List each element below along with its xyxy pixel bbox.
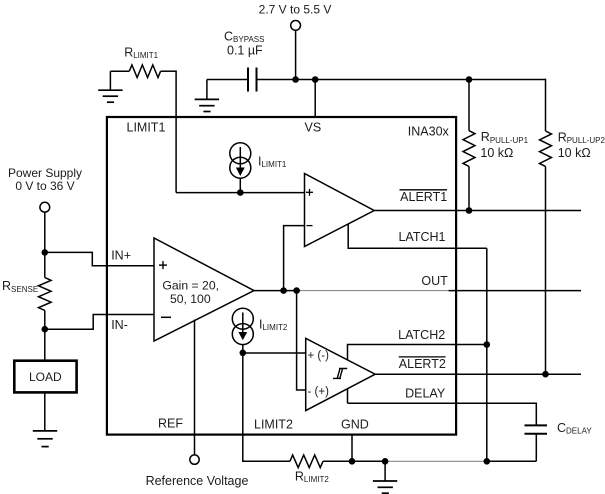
svg-text:VS: VS [305,120,322,134]
terminal 2.7V to 5.5V [259,3,332,31]
terminal Power Supply [8,166,82,212]
node LATCH2 junction [484,341,491,348]
pin label LATCH1 [398,230,445,244]
wire ground rail (GND junction to earth) [352,460,385,462]
wire OUT net (to right edge) [449,290,582,292]
wire ground rail to CDELAY [487,460,537,462]
node VS/rail [312,76,319,83]
wire to LOAD [44,329,46,361]
resistor RLIMIT1 [124,45,160,77]
svg-text:LATCH2: LATCH2 [398,328,445,342]
node RLIMIT2/GND [349,458,356,465]
svg-text:0.1 µF: 0.1 µF [227,44,263,58]
wire RLIMIT1 left lead [110,70,129,72]
current source ILIMIT1 [230,143,287,178]
svg-text:50, 100: 50, 100 [170,292,211,306]
wire VS pin drop [314,80,316,118]
wire ALERT1 net [374,210,581,212]
node supply-terminal/rail [292,76,299,83]
wire GND pin drop [351,435,353,462]
wire CDELAY bottom lead [535,434,537,462]
node IN+ tap [42,249,49,256]
wire REF pin (amp to terminal) [194,320,196,455]
current source ILIMIT2 [232,308,288,344]
load block [14,361,76,393]
svg-text:+ (-): + (-) [308,350,330,362]
hysteresis symbol inside U3 [333,369,347,379]
wire RLIMIT1 right lead [161,70,177,72]
svg-text:INA30x: INA30x [408,125,450,139]
wire LOAD to ground [44,392,46,431]
svg-text:- (+): - (+) [308,386,330,398]
wire CBYPASS left lead to ground [207,79,248,81]
wire LATCH1-LATCH2-GND vertical [486,248,488,461]
svg-text:LATCH1: LATCH1 [398,230,445,244]
wire ALERT2 net [375,373,581,375]
svg-text:2.7 V to 5.5 V: 2.7 V to 5.5 V [259,3,332,17]
svg-text:0 V to 36 V: 0 V to 36 V [15,179,74,193]
capacitor CBYPASS [224,29,264,91]
node ALERT1/RPULLUP1 [466,207,473,214]
wire supply rail [257,79,546,81]
node IN- tap [42,326,49,333]
pin label LIMIT2 [254,418,293,432]
pin label ALERT2 (with overline) [399,357,446,371]
wire LATCH1 net [348,224,487,249]
wire LIMIT1 pin drop [175,70,177,192]
comparator U3 (ALERT2, hysteresis) [306,338,376,410]
pin label ALERT1 (with overline) [400,190,448,204]
svg-text:10 kΩ: 10 kΩ [558,146,591,160]
svg-text:IN+: IN+ [111,249,131,263]
svg-text:LIMIT1: LIMIT1 [127,120,166,134]
ground (GND rail) [373,461,397,493]
wire IN+ net [45,252,154,265]
comparator U2 (ALERT1) [305,174,375,247]
wire RSENSE top lead [44,252,46,277]
wire ILIMIT1 to comparator U2 + input [176,192,304,194]
wire RPULLUP2 top lead [545,79,547,131]
wire ILIMIT2 source stub [242,345,244,353]
pin label IN+ [111,249,131,263]
wire ground rail (thin segment) [385,460,487,462]
ground (RLIMIT1) [98,71,122,102]
svg-text:LIMIT2: LIMIT2 [254,418,293,432]
node ILIMIT1/LIMIT1 wire [237,189,244,196]
pin label GND [341,418,369,432]
svg-text:DELAY: DELAY [405,386,446,400]
svg-text:Power Supply: Power Supply [8,166,82,180]
svg-text:ALERT2: ALERT2 [399,357,446,371]
wire supply vertical (2.7V terminal to rail) [295,30,297,79]
resistor RLIMIT2 [290,455,329,484]
node OUT/comparator U2 - input [280,287,287,294]
wire IN- net [45,315,154,330]
pin label IN- [111,318,128,332]
wire comparator U2 - input [284,226,305,291]
svg-text:10 kΩ: 10 kΩ [480,146,513,160]
svg-text:IN-: IN- [111,318,128,332]
wire RPULLUP1 top lead [468,80,470,131]
svg-text:REF: REF [158,417,183,431]
wire power supply terminal drop [44,212,46,252]
wire DELAY net [348,389,537,425]
ground (LOAD) [33,431,57,447]
op-amp A1 main amplifier (Gain = 20, 50, 100) [154,238,254,341]
svg-text:OUT: OUT [421,274,448,288]
wire OUT net (thin middle segment) [300,290,449,292]
wire RPULLUP1 bottom lead to ALERT1 [468,166,470,210]
wire RPULLUP2 bottom lead to ALERT2 [545,166,547,374]
wire OUT net (amp output) [254,290,300,292]
pin label OUT [421,274,448,288]
capacitor CDELAY [525,421,593,436]
pin label VS [305,120,322,134]
wire ILIMIT2 to comparator U3 + input [243,352,306,354]
resistor RSENSE [2,278,51,311]
op-amp/IC outline U1 INA30x [107,117,456,435]
wire ILIMIT1 source stub [239,178,241,192]
wire comparator U3 - input from OUT [297,291,306,390]
svg-text:Reference Voltage: Reference Voltage [146,474,249,488]
node earth ground junction [382,458,389,465]
pin label REF [158,417,183,431]
resistor RPULLUP2 [540,130,605,166]
svg-text:Gain = 20,: Gain = 20, [162,278,219,292]
node ALERT2/RPULLUP2 [542,371,549,378]
svg-text:LOAD: LOAD [29,370,62,384]
part name INA30x [408,125,450,139]
wire RSENSE bottom lead [44,310,46,329]
ground (CBYPASS) [195,80,219,112]
wire RLIMIT2 right lead [323,460,352,462]
node RPULLUP1/rail [466,76,473,83]
svg-text:GND: GND [341,418,369,432]
pin label LIMIT1 [127,120,166,134]
svg-text:ALERT1: ALERT1 [400,190,447,204]
terminal Reference Voltage [146,455,249,488]
pin label DELAY [405,386,446,400]
wire LATCH2 net [348,345,487,361]
node OUT/comparator U3 - input [293,287,300,294]
resistor RPULLUP1 [463,130,529,166]
pin label LATCH2 [398,328,445,342]
wire LIMIT2 pin drop [243,353,290,461]
node ILIMIT2/LIMIT2 wire [240,350,247,357]
node latch wire/ground rail [484,458,491,465]
